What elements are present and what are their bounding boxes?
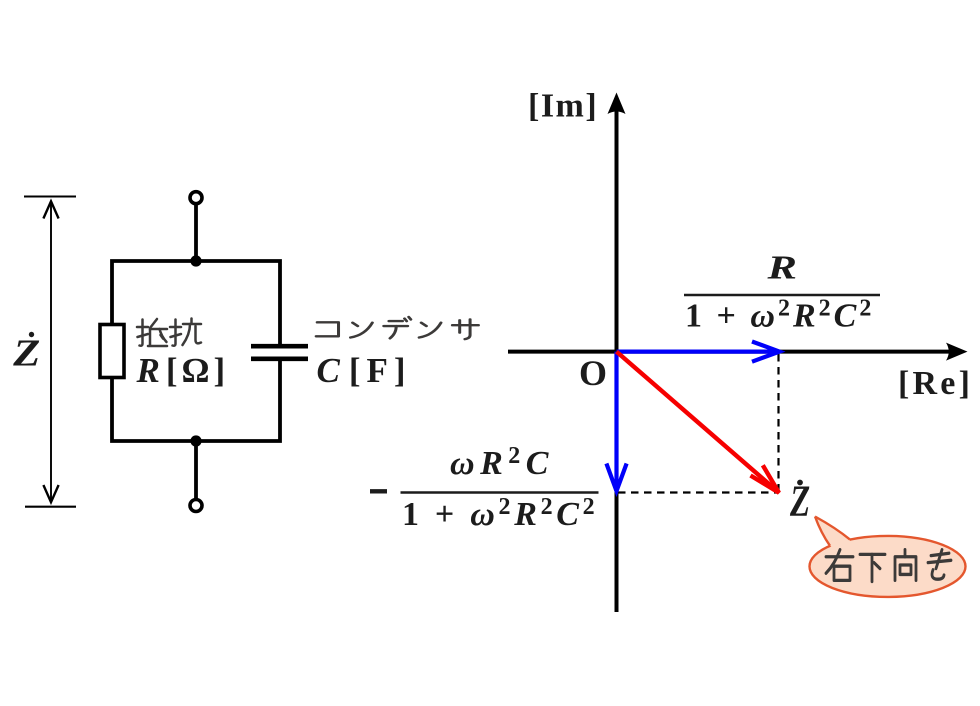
svg-text:R[Ω]: R[Ω] <box>136 351 230 390</box>
svg-text:O: O <box>579 353 607 393</box>
svg-text:[Re]: [Re] <box>898 365 973 402</box>
svg-text:[Im]: [Im] <box>528 88 598 125</box>
svg-text:R: R <box>766 248 797 286</box>
svg-text:Z: Z <box>12 331 40 374</box>
svg-text:ωR2C: ωR2C <box>450 443 554 482</box>
svg-text:C[F]: C[F] <box>317 351 412 390</box>
